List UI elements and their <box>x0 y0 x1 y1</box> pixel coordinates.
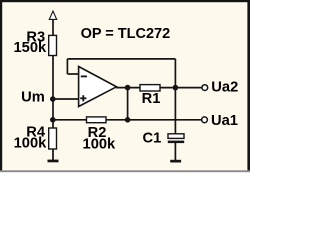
wire R4 to ground <box>52 149 54 160</box>
feedback wire top horizontal <box>67 58 175 60</box>
junction dot bottom <box>125 117 131 123</box>
resistor R4 <box>49 128 57 149</box>
wire R3 to R4 <box>52 56 54 129</box>
ground left <box>48 160 59 163</box>
bottom wire right segment to Ua1 <box>106 119 202 121</box>
junction dot R2 branch <box>50 117 56 123</box>
capacitor C1 top plate <box>168 134 184 139</box>
svg-text:C1: C1 <box>143 130 162 146</box>
wire arrow to R3 <box>52 19 54 35</box>
wire Um node to + input <box>53 98 79 100</box>
wire C1 to ground <box>174 143 176 160</box>
op-amp U1 <box>79 67 117 107</box>
bottom wire left segment <box>53 119 87 121</box>
wire minus input <box>67 73 78 75</box>
resistor R3 <box>49 35 57 55</box>
svg-text:Um: Um <box>21 90 45 106</box>
junction dot output <box>125 85 131 91</box>
resistor R2 <box>87 117 107 123</box>
op-amp minus sign <box>81 75 87 77</box>
svg-text:100k: 100k <box>83 137 117 153</box>
resistor R1 <box>140 85 160 91</box>
svg-text:Ua2: Ua2 <box>211 80 238 96</box>
feedback wire right vertical down to C1 <box>174 59 176 134</box>
svg-text:150k: 150k <box>14 40 48 56</box>
node Um junction dot <box>50 96 56 102</box>
terminal Ua1 <box>202 117 208 123</box>
feedback wire left vertical <box>66 59 68 74</box>
op-amp plus sign <box>80 97 86 99</box>
junction dot R1 right <box>173 85 179 91</box>
svg-text:R1: R1 <box>142 91 161 107</box>
ground right <box>170 160 181 163</box>
capacitor C1 bottom plate <box>168 141 184 144</box>
wire R1 to Ua2 terminal <box>160 87 202 89</box>
supply arrow <box>49 11 56 19</box>
wire op-amp output <box>116 87 140 89</box>
svg-text:100k: 100k <box>14 136 48 152</box>
svg-text:OP = TLC272: OP = TLC272 <box>81 26 171 42</box>
terminal Ua2 <box>202 85 208 91</box>
svg-text:Ua1: Ua1 <box>211 113 238 129</box>
wire output node down to bottom wire <box>127 88 129 120</box>
